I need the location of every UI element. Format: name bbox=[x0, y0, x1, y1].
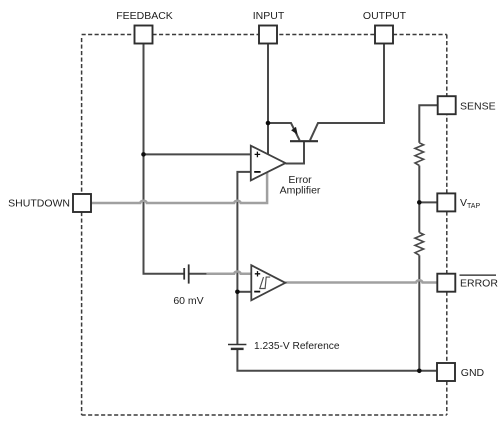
svg-text:VTAP: VTAP bbox=[460, 197, 480, 210]
svg-text:OUTPUT: OUTPUT bbox=[363, 10, 407, 22]
svg-text:INPUT: INPUT bbox=[253, 10, 285, 22]
svg-text:ERROR: ERROR bbox=[460, 277, 498, 289]
svg-text:SHUTDOWN: SHUTDOWN bbox=[8, 198, 70, 210]
svg-text:GND: GND bbox=[461, 367, 485, 379]
svg-text:Amplifier: Amplifier bbox=[280, 185, 321, 197]
svg-text:FEEDBACK: FEEDBACK bbox=[116, 10, 173, 22]
svg-text:1.235-V Reference: 1.235-V Reference bbox=[254, 341, 340, 352]
svg-text:60 mV: 60 mV bbox=[173, 295, 203, 307]
svg-text:SENSE: SENSE bbox=[460, 101, 496, 113]
